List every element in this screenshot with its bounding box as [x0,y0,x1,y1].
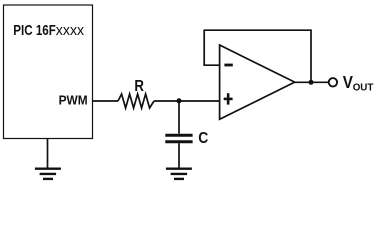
svg-text:V: V [343,72,353,92]
svg-text:xxxx: xxxx [56,23,85,39]
svg-text:PIC 16F: PIC 16F [13,23,56,39]
svg-text:OUT: OUT [353,83,374,94]
svg-text:PWM: PWM [59,93,88,108]
svg-text:R: R [134,78,144,95]
svg-text:C: C [198,130,208,147]
